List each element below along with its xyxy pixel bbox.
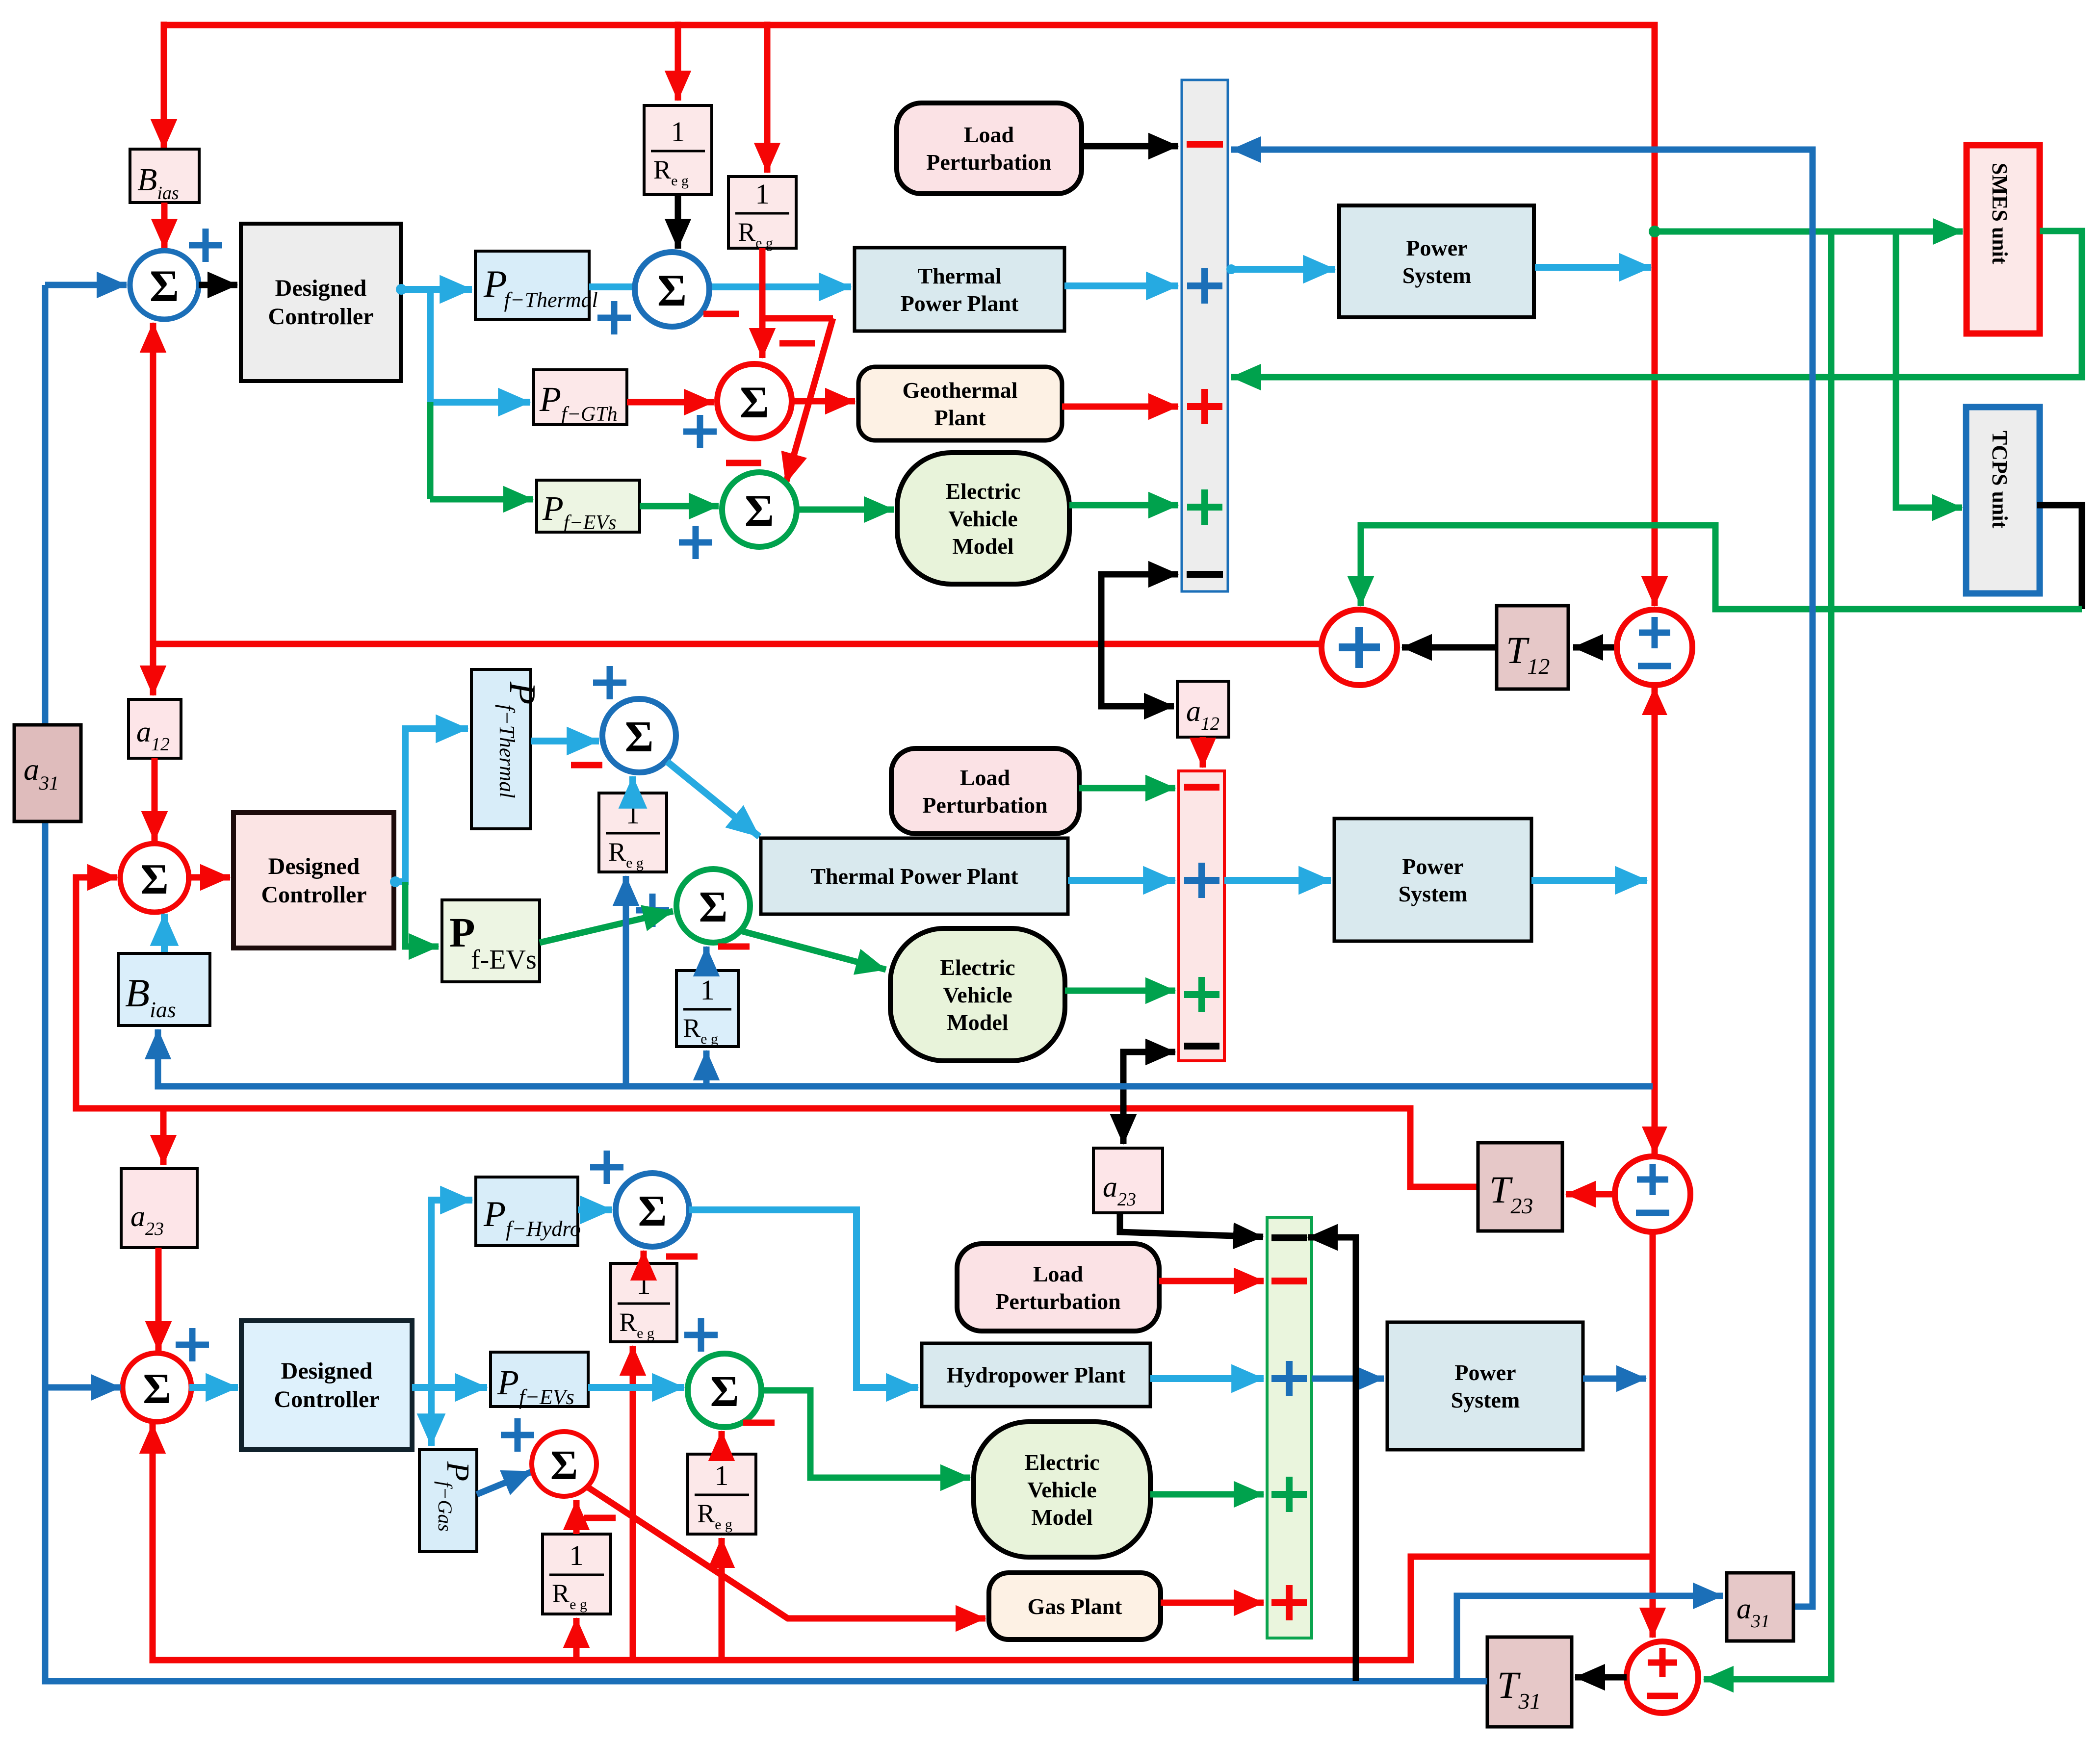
wire Reg1 to thermal sum [675,195,681,249]
block Designed Controller area1 [241,224,401,381]
wire red drop to Bias1 [161,22,167,149]
wire Bias2 to Sum2 [161,914,168,953]
svg-text:ElectricVehicleModel: ElectricVehicleModel [945,479,1020,559]
wire branch to Pf-EVs1 [430,496,533,503]
sign plus bar3 EV plus [1271,1477,1307,1512]
wire red drop to Reg1 [675,22,681,101]
wire green branch v1 to pm3 [1704,231,1831,1679]
block Gas Plant [989,1573,1161,1640]
sign minus EV sum minus area1 [726,460,761,466]
wire bar2 to PS2 [1224,877,1331,884]
block Pf-Thermal2 tall [471,669,531,829]
block a12 mid [1177,681,1229,737]
label Pf-Gas text [434,1461,476,1532]
sign minus bar2 LP minus [1184,784,1219,791]
sign plus thermal sum plus [597,301,631,334]
summing junction hydro area3 [616,1173,689,1247]
sign minus geo sum minus [779,340,815,347]
wire red up RegE [573,1618,580,1660]
block Power System area2 [1334,819,1531,941]
block Load Perturbation area1 [897,103,1082,194]
sign minus pm3 minus [1647,1693,1678,1699]
wire PS1 freq out [1535,264,1651,271]
sign plus Sum3b plus [590,1151,623,1184]
block T23 [1478,1143,1562,1231]
sign minus bar2 tie minus [1184,1043,1219,1050]
wire black tap up to bar1 [1101,574,1178,644]
sign minus thermal2 minus [571,762,602,769]
svg-text:f-EVs: f-EVs [471,945,537,975]
svg-text:Σ: Σ [625,713,654,761]
wire RegD to Sum3c [719,1431,725,1454]
summing junction thermal area1 [635,252,709,327]
block Pf-EVs3 [491,1352,588,1407]
block Electric Vehicle Model area3 [974,1422,1150,1557]
wire Reg feedback horizontal [762,315,833,322]
wire EV2 to bar2 [1065,988,1175,994]
wire LP3 to bar3 [1159,1278,1264,1284]
sign minus bar3 tie minus [1271,1234,1307,1241]
block Bias2 [118,953,210,1025]
sign plus pm3 plus [1648,1648,1677,1677]
svg-text:1: 1 [626,798,640,830]
wire blue up RegB [703,1050,710,1086]
sign plus bar1 thermal plus [1187,268,1222,304]
block T31 [1487,1637,1572,1727]
summing junction EV area2 [676,869,750,943]
wire T31 out long blue [45,821,1487,1681]
sign plus Sum4 plus [501,1418,534,1452]
sign minus bar1 tie minus [1187,571,1223,578]
block Electric Vehicle Model area2 [890,928,1065,1061]
wire green branch v2 to TCPS [1896,231,1962,508]
block Pf-EVs2 [442,900,540,982]
wire LP1 to bar1 [1082,143,1178,150]
sign plus geo sum plus [683,415,717,448]
svg-text:Hydropower Plant: Hydropower Plant [946,1362,1126,1387]
sign plus Sum3c plus [684,1318,718,1352]
summing junction pm1 [1617,610,1692,685]
svg-text:Σ: Σ [699,883,728,931]
sign plus thermal2 plus [593,666,626,699]
svg-text:Σ: Σ [150,261,179,311]
label Pf-EVs1 text [542,490,616,534]
wire DC3 out to Pf-EVs3 [412,1384,487,1391]
wire Reg feedback diagonal to EV sum [786,318,833,483]
wire a23M to bar3 [1120,1213,1263,1237]
wire Hydro to bar3 [1150,1375,1264,1382]
label Pf-Hydro text [483,1194,581,1241]
wire DC3 down to Pf-Gas [428,1387,435,1446]
block RegA 1/Reg [599,793,667,872]
wire blue tie input to Sum1 [45,282,127,288]
svg-text:Σ: Σ [140,856,169,903]
wire tie23 feedback into Sum2 [76,877,1478,1187]
block RegE 1/Reg [543,1534,611,1614]
wire Pf-Gas to Sum4 [477,1471,533,1494]
wire green to SMES [1655,229,1963,235]
wire TCPS green to tie12 sum [1361,525,2082,609]
wire RegB to EV2 sum [703,947,710,971]
wire EV2 sum to EV model2 [741,931,886,970]
wire T12 to tie12 sum [1402,644,1497,651]
block Pf-Hydro [476,1177,578,1246]
block Thermal Power Plant area2 [761,838,1068,914]
wire red drop to Reg2 [764,22,771,173]
wire PS2 freq out [1531,877,1647,884]
block Electric Vehicle Model area1 [897,453,1069,584]
sign minus bar1 LP minus [1187,141,1223,148]
wire thermal2 sum diag out [667,762,759,837]
wire LP2 to bar2 [1079,785,1175,792]
wire Pf-Hydro to Sum3b [578,1206,612,1213]
svg-text:1: 1 [570,1539,584,1571]
block Hydropower Plant [922,1343,1150,1407]
svg-text:ElectricVehicleModel: ElectricVehicleModel [940,955,1015,1035]
wire TPP1 to bar1 [1064,282,1178,289]
svg-text:1: 1 [700,974,715,1006]
wire DC2 green to Pf-EVs2 [405,882,439,947]
block SMES unit [1967,145,2040,333]
sign plus pm1 plus [1639,617,1670,648]
wire a23L to Sum3 [156,1248,162,1351]
block RegC 1/Reg [611,1263,677,1342]
wire black tap a23M [1120,1108,1127,1144]
wire TCPS out black [2037,505,2082,609]
block RegB 1/Reg [676,971,738,1047]
svg-text:Σ: Σ [143,1365,171,1413]
wire pm1 to T12 [1573,644,1617,651]
block a23 mid [1093,1148,1163,1213]
wire Sum4 out to Gas Plant [587,1486,985,1618]
label Pf-Thermal1 text [483,262,598,312]
wire Gas to bar3 [1161,1600,1264,1606]
wire Pf-EVs3 to Sum3c [588,1384,684,1391]
sign plus bar1 geo plus [1187,389,1222,424]
wire black tap bar2 [1123,1052,1175,1108]
block Reg1 1/Reg [644,105,712,195]
wire Pf-Thermal2 to sum [531,738,599,744]
wire Sum2 to DC2 [186,874,230,881]
wire red up RegC [630,1346,636,1660]
summing junction pm2 [1615,1156,1690,1232]
svg-text:ElectricVehicleModel: ElectricVehicleModel [1024,1450,1099,1530]
svg-text:Σ: Σ [740,377,769,427]
sign minus EV2 minus [718,944,750,950]
wire geo sum to Geothermal Plant [792,398,855,405]
wire TPP2 to bar2 [1068,877,1175,884]
wire blue vert to a31L [42,285,49,725]
wire RegA to thermal2 sum [629,776,636,793]
wire a12M to bar2 [1200,737,1206,768]
summing junction EV area1 [722,472,797,547]
svg-text:Σ: Σ [657,265,687,315]
sign minus pm2 minus [1636,1210,1669,1216]
wire branch up a31R [1457,1596,1723,1681]
wire Pf-EVs2 to EV2 sum [540,911,673,943]
wire Bias1 to Sum1 [161,203,168,249]
svg-text:SMES unit: SMES unit [1988,163,2012,264]
wire Reg2 down to geo sum [759,248,766,358]
wire DC2 up to Pf-Thermal2 [395,729,468,882]
summing junction EV area3 [688,1354,761,1427]
wire black tap down to a12M [1101,644,1174,706]
summing bar area1 [1182,80,1228,591]
block Designed Controller area2 [233,813,394,948]
wire Sum3b out to Hydro plant [689,1210,918,1387]
block Pf-Thermal1 [475,251,589,319]
wire red up RegD [719,1538,725,1660]
block Reg2 1/Reg [728,177,796,248]
block RegD 1/Reg [688,1454,756,1534]
summing junction geothermal area1 [717,364,792,438]
svg-text:1: 1 [671,116,685,148]
block Bias1 B_ias [130,149,199,203]
summing bar area3 [1267,1217,1312,1638]
label Pf-GTh text [539,380,618,426]
wire blue feedback area2 [158,1029,1653,1086]
wire tie red line to Sum junction [153,641,1322,647]
wire red ACE up into Sum1 [150,323,156,644]
wire DC1 branch down cyan [427,289,434,402]
block Pf-EVs1 [537,480,640,532]
summing junction gas area3 [532,1432,596,1496]
block Pf-GTh [534,370,627,425]
wire Sum3 to DC3 [189,1384,238,1391]
label Pf-EVs3 text [497,1363,574,1409]
block T12 [1497,606,1568,689]
wire DC3 up to Pf-Hydro [431,1200,472,1387]
sign plus tie12 plus sign [1339,627,1380,668]
block a31 left [14,725,81,821]
sign minus pm1 minus [1638,663,1671,669]
sign plus bar2 thermal plus [1184,863,1219,898]
wire red down to a12L [150,644,156,695]
wire EV3 to bar3 [1150,1491,1264,1498]
sign plus bar2 EV plus [1184,977,1219,1012]
block a23 left [121,1169,197,1248]
wire branch to Pf-GTh [430,399,530,406]
block a31 right [1727,1573,1793,1641]
wire PS3 freq out [1583,1376,1646,1382]
wire SMES feedback to bar1 [1231,231,2082,377]
sign plus bar1 EV plus [1187,489,1222,525]
wire branch green down [427,402,434,499]
wire Sum3c out to EV model3 [761,1390,970,1478]
wire red vert c2-c3 [1650,1232,1656,1638]
wire red vert c1-c2 [1652,685,1658,1156]
wire a31R up to bar1 [1231,150,1813,1607]
block Thermal Power Plant area1 [855,248,1064,331]
wire blue up RegA [623,876,629,1086]
block Power System area3 [1387,1322,1583,1450]
label Pf-Thermal2 text [495,681,543,798]
summing bar area2 [1179,771,1224,1061]
sign plus bar3 hydro plus [1271,1361,1307,1396]
block Load Perturbation area3 [957,1244,1159,1331]
block a12 left [129,699,181,758]
sign plus Sum1 plus [189,229,222,262]
block Load Perturbation area2 [891,748,1079,834]
wire branch black bar3 [1308,1237,1356,1681]
sign minus thermal sum minus [703,311,739,317]
wire bar3 to PS3 [1312,1376,1384,1382]
summing junction Sum3 area3 [123,1353,191,1422]
summing junction pm3 [1627,1641,1698,1713]
sign plus Sum3 plus [176,1328,209,1361]
svg-text:1: 1 [715,1460,729,1491]
block Power System area1 [1339,205,1534,317]
wire branch down to a23L [160,1108,167,1165]
wire pm3 to T31 [1575,1674,1627,1681]
wire a12L to Sum2 [152,758,158,841]
wire RegC to Sum3b [641,1251,647,1263]
svg-text:TCPS unit: TCPS unit [1988,431,2012,529]
sign plus EV2 plus [636,894,669,927]
svg-text:Gas Plant: Gas Plant [1028,1594,1123,1619]
wire Geo to bar1 [1062,404,1178,410]
sign plus bar3 gas plus [1271,1585,1307,1620]
wire EV1 to bar1 [1069,502,1178,509]
wire Pf-Thermal1 to TPP1 line [589,283,851,290]
wire Pf-GTh to geo sum [627,399,714,406]
summing junction tie12 plus [1322,610,1397,685]
wire DC1 out to Pf-Thermal1 [400,286,472,293]
sign plus EV sum plus area1 [679,526,712,559]
sign minus bar3 LP minus [1271,1278,1307,1284]
svg-text:1: 1 [755,178,770,210]
svg-text:Σ: Σ [710,1367,739,1416]
wire bar1 to Power System1 [1228,266,1335,273]
sign minus Sum3c minus [743,1420,775,1426]
wire Pf-EVs1 to EV sum [640,503,719,510]
wire pm2 to T23 [1566,1191,1615,1198]
svg-text:Thermal Power Plant: Thermal Power Plant [810,864,1018,889]
sign minus Sum4 minus [584,1515,616,1521]
block Designed Controller area3 [241,1321,412,1450]
svg-text:Σ: Σ [638,1187,667,1235]
svg-text:Σ: Σ [550,1441,578,1488]
svg-text:1: 1 [637,1268,651,1300]
block Geothermal Plant [858,367,1062,440]
wire EV sum to EV model1 [797,507,894,513]
wire Sum1 to DC1 [199,282,237,288]
summing junction Sum2 area2 [120,844,189,912]
block Pf-Gas tall [419,1450,477,1552]
sign plus pm2 plus [1637,1164,1668,1195]
wire blue into Sum3 [45,1384,121,1391]
wire top red distribution [164,25,1655,606]
summing junction thermal area2 [602,699,676,772]
wire red area3 feedback [153,1424,1655,1660]
svg-text:Σ: Σ [745,486,774,536]
summing junction Sum1 area1 [130,251,199,319]
sign minus Sum3b minus [666,1254,698,1260]
block TCPS unit [1966,407,2040,593]
wire RegE to Sum4 [573,1500,580,1534]
